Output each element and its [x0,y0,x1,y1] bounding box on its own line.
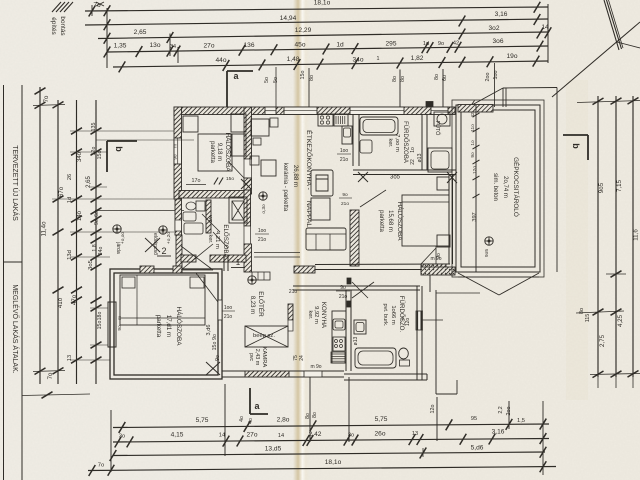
svg-text:295: 295 [385,41,396,48]
outer wall left lower segment [175,199,182,235]
kitchen bath divider wall top [352,114,354,166]
kitchen sink unit [334,114,348,126]
hall15 bottom wall [315,263,450,266]
outer wall left to existing house [176,235,182,272]
legend hatch swatch epites [52,2,61,12]
svg-text:2,42: 2,42 [309,431,322,438]
shower cabin [229,197,247,223]
svg-text:b: b [114,146,124,152]
svg-text:3,16: 3,16 [495,11,508,18]
svg-text:44o: 44o [215,57,226,64]
svg-text:2oo: 2oo [485,73,491,82]
svg-text:42: 42 [470,112,476,118]
left dim bottom tick line 70 [33,371,65,372]
svg-text:bontás: bontás [59,16,66,35]
window dim extension line [96,139,194,141]
svg-text:2oo: 2oo [506,407,512,416]
building corner right lower [426,374,428,380]
svg-text:8o: 8o [392,76,398,82]
svg-text:1o: 1o [470,140,476,146]
bath sink upper [360,140,372,153]
svg-text:41o: 41o [57,297,64,308]
bathtub bottom [355,348,396,368]
svg-text:1oo: 1oo [258,228,267,234]
svg-text:21o: 21o [339,294,348,300]
konyha furdo divider [345,290,347,371]
left margin separator [4,261,23,263]
top dim line1 left end vertical [91,5,93,16]
extension line y210 [95,210,184,212]
svg-text:m 9o: m 9o [430,256,441,262]
top dims right end vertical [547,4,549,63]
wardrobe beep sz [245,326,288,347]
svg-text:21o: 21o [340,157,349,163]
left dim vertical line D [95,100,97,384]
svg-text:ker.: ker. [307,310,313,319]
svg-text:9o5: 9o5 [598,182,605,193]
bottom dimension line C (13,05 / 5,06) [113,452,545,456]
left dim tick extension lines [70,130,174,132]
bottom wall furdo [344,373,427,375]
corridor step lines [254,252,300,254]
bed double [120,275,205,325]
svg-text:5o: 5o [264,77,270,83]
svg-text:KAMRA: KAMRA [261,347,267,368]
svg-text:7o: 7o [44,95,50,102]
door posts konyha [347,278,351,284]
svg-text:1,48: 1,48 [287,56,300,63]
coffee table square [311,198,330,220]
svg-text:67o: 67o [58,186,65,197]
svg-text:21o: 21o [258,237,267,243]
bedroom1 cupboard [183,116,198,132]
eloszoba door gap [244,226,251,244]
guide line garage left [436,292,480,294]
window left wall bedroom1 [174,138,182,164]
svg-text:parketta: parketta [155,315,162,338]
hall15 door swing [421,248,436,264]
hall15 door swing top [360,190,386,207]
svg-text:pvt. burk.: pvt. burk. [382,303,388,326]
left dim vertical line A (11,40) [39,87,41,384]
svg-text:2,65: 2,65 [134,29,147,36]
svg-text:2,8o: 2,8o [277,417,290,424]
existing bedroom window left [108,302,116,347]
svg-text:95: 95 [471,416,477,422]
window top wall nappali 1 [265,107,276,115]
svg-text:14,94: 14,94 [280,15,297,22]
svg-text:1oo: 1oo [340,148,349,154]
door swing existing bedroom [196,273,218,302]
svg-text:42: 42 [453,41,459,47]
svg-text:12o: 12o [472,166,478,174]
bottom wall door gap [304,371,322,377]
wc sink [183,212,196,221]
bottom dimension line A (5,75 2,80 5,75) [113,424,549,428]
interior wall wc right / eloszoba left [244,190,251,226]
svg-text:2,65: 2,65 [86,176,92,188]
left margin rule outer [3,85,5,480]
svg-text:34: 34 [170,44,176,50]
bedroom1 bed square top [231,114,246,132]
svg-text:1: 1 [377,56,380,62]
svg-text:15o: 15o [97,151,103,160]
existing bedroom top wall hatch bits [140,266,154,273]
paper shading top right [300,0,640,480]
svg-text:11o: 11o [470,124,476,132]
top dimension line 2 (14,94 / 3,16) [85,19,548,25]
svg-text:3o5: 3o5 [390,175,401,181]
terrace steps [252,272,270,280]
bottom guide verticals [110,410,112,472]
dining table [251,119,269,136]
svg-text:ELŐSZOBA: ELŐSZOBA [222,224,229,258]
wc toilet [196,201,205,211]
existing bedroom door gap right [218,300,222,320]
sofa bottom [306,228,346,250]
svg-text:8o: 8o [305,413,311,419]
svg-text:15o: 15o [97,321,103,330]
wc tub small [184,223,203,234]
svg-text:5,75: 5,75 [196,417,209,424]
svg-text:14: 14 [278,433,284,439]
right dim vertical 2 (7,15/4,25) [615,96,617,377]
corridor wall right segment [210,255,246,262]
svg-text:HÁLÓSZOBA: HÁLÓSZOBA [224,132,233,172]
svg-text:1oo: 1oo [493,71,499,80]
svg-text:12o: 12o [430,405,436,414]
bottom wall hatch segment [245,371,289,377]
kitchen counter [342,126,352,144]
wall 3,05 horizontal [353,169,456,171]
svg-text:8o: 8o [579,308,585,314]
svg-text:KONYHA: KONYHA [320,302,327,329]
bedroom1 door X [241,179,251,189]
svg-text:o,3o: o,3o [261,204,267,214]
window top wall futo [431,107,448,115]
bathtub upper [360,117,398,135]
garage outer eave [452,100,544,277]
dining table 2 [261,160,276,176]
bedroom1 label frame [198,134,232,171]
garage eave arrow [471,88,503,106]
bath futo divider wall [421,114,423,170]
section marker b right [563,134,588,136]
svg-text:45o: 45o [294,42,305,49]
svg-text:12,29: 12,29 [295,27,312,34]
svg-text:3o: 3o [119,434,125,440]
level mark elolepcso [159,226,167,234]
bedroom1 door gap [244,159,252,178]
door X marks wall 305 [358,172,368,182]
left dim top tick line 70 [33,105,65,106]
svg-text:m 9o: m 9o [310,364,321,370]
svg-text:8o: 8o [309,75,315,81]
hall15 bed [402,195,449,246]
svg-text:47o: 47o [71,294,78,305]
corridor bottom walls [293,285,346,287]
armchair [311,170,333,196]
kitchen stove [318,114,333,126]
svg-text:19o: 19o [506,53,517,60]
garage lamp [485,237,493,245]
svg-text:ker.: ker. [207,234,213,243]
svg-text:27o: 27o [203,43,214,50]
svg-text:HÁLÓSZOBA: HÁLÓSZOBA [396,201,405,241]
svg-text:m: m [118,316,123,320]
svg-text:21o: 21o [289,289,298,295]
svg-text:7,oo m: 7,oo m [394,134,400,152]
svg-text:397: 397 [472,212,478,221]
door x marks entry [145,238,160,252]
svg-text:2o,74 m: 2o,74 m [502,176,508,198]
window top wall nappali 2 [284,107,317,115]
svg-text:27o: 27o [246,432,257,439]
bottom dimension line D (18,10) [88,467,556,471]
door swings hall [202,214,220,232]
svg-text:3o6: 3o6 [492,38,503,45]
garage top wall hatch [458,105,493,113]
right fold shade [566,80,588,400]
svg-text:ELŐTÉR: ELŐTÉR [257,291,266,317]
outer wall top [174,107,455,115]
svg-text:ø13: ø13 [417,153,423,162]
svg-text:21o: 21o [224,314,233,320]
svg-text:24: 24 [299,355,305,361]
demolition cross top right [604,0,619,50]
svg-text:22: 22 [410,159,416,165]
svg-text:18,1o: 18,1o [325,459,342,466]
svg-text:26: 26 [67,174,73,180]
svg-text:beép sz.: beép sz. [253,333,275,339]
section marker b left [107,140,137,142]
left bottom stray line [22,394,90,396]
right dim vertical 3 (11,40) [632,96,634,377]
svg-text:21o: 21o [341,201,349,207]
svg-text:építés: építés [50,17,57,34]
furdo window right [416,311,423,330]
svg-text:FÜRDŐSZOBA: FÜRDŐSZOBA [402,121,409,163]
top dimension line 5 (4,40 / 1,48 / ...) [113,61,548,67]
svg-text:5,d6: 5,d6 [471,445,484,452]
svg-text:9o: 9o [342,192,348,198]
svg-text:1o66 m: 1o66 m [390,305,396,325]
eloter door gap below [288,320,293,331]
outer wall left upper [174,107,182,199]
svg-text:m: m [173,144,178,148]
hall15 nightstand bottom [437,235,450,247]
svg-text:136: 136 [243,42,254,49]
svg-text:15o: 15o [300,71,306,80]
svg-text:13: 13 [67,355,73,361]
right dim vertical 1 (9,05/2,75) [597,96,599,377]
water heater [434,112,450,126]
svg-text:2,75: 2,75 [599,334,606,347]
top dimension line 3 (2,65 / 12,29 / 3,62) [98,32,548,39]
konyha ladder [331,352,345,363]
left wall door gap [175,220,182,231]
svg-text:14: 14 [219,433,226,439]
svg-text:34o: 34o [352,57,363,64]
svg-text:9o: 9o [215,355,221,361]
right dim mid ticks [611,271,622,278]
svg-text:13,d5: 13,d5 [265,446,282,453]
svg-text:TERVEZETT ÚJ LAKÁS: TERVEZETT ÚJ LAKÁS [11,145,20,221]
right dim top tick line [577,101,640,103]
toilet bottom [399,348,409,359]
konyha stove [333,337,345,351]
svg-text:4o: 4o [239,416,245,422]
svg-text:7o: 7o [93,2,101,9]
svg-text:kerámia - parketta: kerámia - parketta [282,163,288,212]
hall15 bottom wall hatch segment [421,264,446,273]
right dim bottom stubs [597,377,599,388]
lamp nappali [259,192,267,200]
svg-text:9o: 9o [438,41,444,47]
svg-text:3o: 3o [348,433,354,439]
svg-text:18,1o: 18,1o [314,0,331,7]
svg-text:7o: 7o [48,372,54,379]
svg-text:9o5: 9o5 [484,249,490,257]
hall15 left wall [350,210,359,266]
svg-text:3o2: 3o2 [488,25,499,32]
svg-text:115: 115 [585,314,591,323]
centre fold crease band [293,0,310,480]
section marker a top [227,70,253,72]
svg-text:14: 14 [541,24,549,31]
konyha door swing [352,282,374,298]
section marker a bottom [249,388,251,414]
svg-text:1d: 1d [67,197,73,203]
svg-text:4,15: 4,15 [171,432,184,439]
svg-text:1oo: 1oo [224,305,233,311]
interior wall bedroom1 right lower [244,178,252,194]
garage door gable [458,273,499,295]
svg-text:GÉPKOCSITÁROLÓ: GÉPKOCSITÁROLÓ [512,157,521,217]
left dim tick rows [71,128,82,135]
svg-text:17o: 17o [192,178,201,184]
hatched wall under hall15 right [421,267,455,275]
svg-text:járda: járda [115,241,121,254]
svg-text:FÜRDŐSZO.: FÜRDŐSZO. [398,296,405,333]
chimney block top wall [426,102,433,108]
svg-text:MEGLÉVŐ LAKÁS ÁTALAK.: MEGLÉVŐ LAKÁS ÁTALAK. [11,284,20,373]
konyha counter [332,311,346,363]
svg-text:7o: 7o [98,463,104,469]
svg-text:ÉTKEZŐKONYHA -: ÉTKEZŐKONYHA - [305,130,314,190]
svg-text:9o: 9o [340,285,346,291]
wc plumbing wall [206,200,211,233]
svg-text:26o: 26o [374,431,385,438]
svg-text:3o5: 3o5 [88,260,94,270]
big door swing to bedroom [181,246,213,270]
svg-text:1,35: 1,35 [114,43,127,50]
furdo right wall [416,286,418,380]
top dimension line 4 (partials) [107,46,548,52]
right dim bottom tick line [590,374,640,375]
top dim vertical stub x178 [177,47,179,63]
bed pillows [122,277,135,288]
svg-text:8o: 8o [400,76,406,82]
svg-text:9o: 9o [173,154,178,160]
eloter upper wall edge [223,255,225,271]
bottom dimension line B [113,439,549,443]
bedroom1 door swing [228,161,244,178]
svg-text:13: 13 [412,431,418,437]
svg-text:+o,2o: +o,2o [166,232,172,244]
garage interior dim line [475,105,477,272]
svg-text:8,23 m: 8,23 m [249,296,255,314]
svg-text:15o: 15o [212,342,218,351]
svg-text:135: 135 [91,123,97,132]
hall15 nightstand top [437,177,449,190]
window top wall bath [350,107,404,115]
svg-text:9o: 9o [470,152,476,158]
svg-text:26,88 m: 26,88 m [292,165,299,187]
svg-text:14o: 14o [77,210,83,221]
svg-text:sim. beton: sim. beton [492,173,498,201]
left dim vertical line B (6,70/4,10) [57,100,59,384]
door X mark bedroom [206,362,220,375]
svg-text:HÁLÓSZOBA: HÁLÓSZOBA [175,306,184,346]
svg-text:9,18 m: 9,18 m [216,143,222,161]
svg-text:3,d6: 3,d6 [206,325,212,336]
fold wall eloter right [288,304,293,320]
svg-text:1: 1 [236,258,241,267]
svg-text:pvc: pvc [248,353,254,361]
svg-text:9o: 9o [117,325,123,331]
nappali floor bottom wall hatch [294,266,315,273]
svg-text:b: b [571,143,581,149]
konyha sink [333,319,345,330]
svg-text:8o: 8o [312,412,318,418]
garage walls [456,105,540,272]
interior wall eloszoba left lower [244,244,252,272]
washing machine [354,320,366,334]
svg-text:18o: 18o [97,312,103,321]
corridor wall left [181,255,196,262]
svg-text:13d: 13d [67,250,73,260]
wc room fixtures right [428,148,452,172]
svg-text:9o: 9o [212,334,218,340]
existing bedroom outer walls [110,269,222,379]
svg-text:9o: 9o [94,219,100,225]
svg-text:1,5: 1,5 [517,418,525,424]
left margin rule inner [21,85,23,480]
svg-text:2: 2 [161,246,166,256]
svg-text:15o: 15o [226,176,234,182]
svg-text:5,75: 5,75 [375,416,388,423]
garage eave guide top [503,87,557,90]
eloter lamp [248,276,256,284]
svg-text:4,25: 4,25 [617,314,624,327]
svg-text:ker.: ker. [387,138,393,147]
svg-text:17,d1 m: 17,d1 m [165,315,172,337]
svg-text:1o: 1o [410,147,416,153]
svg-text:1,82: 1,82 [411,55,424,62]
top dims left end vertical [106,8,108,68]
svg-text:3,16: 3,16 [492,429,505,436]
svg-text:11,6: 11,6 [633,229,640,241]
bedroom1 bed square bottom [231,134,246,156]
svg-text:11,4o: 11,4o [41,221,48,237]
left dim vertical line C [76,100,78,384]
top dimension line 1 (18,10) [85,7,548,11]
top dim vertical stub x170 [169,34,171,57]
svg-text:2,2: 2,2 [498,406,504,413]
svg-text:13o: 13o [149,42,160,49]
svg-text:34o: 34o [77,151,83,162]
